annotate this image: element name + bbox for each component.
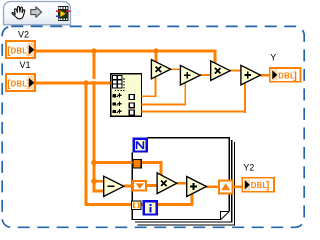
wire tunnel drop to X3 <box>160 161 163 176</box>
for loop stacked frame 3 <box>138 142 235 225</box>
wire X1 to plus1 <box>170 68 181 70</box>
wire index out 2 <box>141 104 186 106</box>
selection marquee (dashed blue) <box>2 26 304 227</box>
multiply X2 <box>211 61 230 80</box>
junction dot X1 feed <box>153 48 158 53</box>
junction dot V1 <box>83 80 88 85</box>
wire V2 drop to multiply X1 <box>155 51 158 63</box>
index array node body <box>111 74 142 117</box>
loop count terminal N <box>134 139 147 152</box>
wire plus1 to X2 <box>200 74 211 76</box>
wire V1 array horizontal <box>36 82 111 85</box>
for loop frame (main) <box>132 138 229 220</box>
wire crossing gap <box>92 79 96 81</box>
page curl at loop corner <box>220 211 229 220</box>
index array 2D grid icon <box>113 76 125 91</box>
svg-text:]: ] <box>266 181 269 192</box>
index array row glyphs <box>112 93 121 113</box>
wire index out 2 riser <box>184 82 186 105</box>
wire right shift register to Y2 <box>233 185 242 188</box>
svg-text:DBL: DBL <box>278 71 295 80</box>
svg-text:V2: V2 <box>18 30 29 40</box>
wire V1 vertical down <box>85 83 88 206</box>
control terminal V1 <box>6 74 35 91</box>
index array output squares <box>129 95 134 115</box>
wire plus2 to Y <box>260 74 269 76</box>
add P3 <box>187 177 207 197</box>
wire to loop tunnel <box>93 161 133 164</box>
wire plus3 to right shift register <box>206 185 218 188</box>
svg-text:Y: Y <box>270 53 276 63</box>
wire X2 to plus2 <box>230 70 242 72</box>
svg-text:DBL: DBL <box>251 181 268 190</box>
wire V1 elbow to autoindex tunnel <box>85 203 132 206</box>
wire autoindex riser to plus3 <box>191 194 194 205</box>
wire V2 drop to multiply X2 <box>214 50 217 64</box>
wire shift register to X3 <box>147 184 158 187</box>
subtract S1 <box>104 176 124 196</box>
input tunnel (array) <box>133 160 141 168</box>
add P1 <box>180 65 200 85</box>
junction dot V2 top <box>91 48 96 53</box>
multiply X1 <box>151 60 170 79</box>
toolbar tab <box>4 2 71 25</box>
svg-text:]: ] <box>294 71 297 82</box>
wire tunnel into loop <box>142 161 163 164</box>
svg-text:DBL: DBL <box>11 80 28 89</box>
svg-text:DBL: DBL <box>11 47 28 56</box>
iteration terminal i <box>144 201 157 214</box>
step arrow icon <box>31 7 42 18</box>
svg-text:Y2: Y2 <box>243 163 254 173</box>
pan tool hand icon <box>12 6 25 19</box>
wire index out 1 <box>141 95 156 97</box>
wire autoindex element <box>141 203 193 206</box>
wire index out 1 riser <box>155 77 157 97</box>
junction dot tunnel feed <box>91 160 97 166</box>
add P2 <box>241 65 261 85</box>
multiply X3 <box>157 173 177 194</box>
for loop stacked frame 2 <box>135 140 232 222</box>
control terminal V2 <box>6 41 35 58</box>
wire to subtract top input <box>93 180 104 183</box>
junction dot subtract feed <box>91 178 97 184</box>
wire index out 3 <box>141 111 246 113</box>
wire to subtract bottom input <box>93 189 104 192</box>
VI film-strip icon <box>56 6 71 21</box>
autoindex tunnel <box>131 201 141 209</box>
wire X3 to plus3 <box>176 182 187 185</box>
indicator Y2 <box>242 178 274 192</box>
wire V2 array horizontal <box>36 50 217 53</box>
wire subtract to shift register <box>123 184 133 187</box>
left shift register <box>133 181 146 191</box>
indicator Y <box>270 68 301 82</box>
svg-text:V1: V1 <box>20 60 31 70</box>
wire index out 3 riser <box>244 82 246 113</box>
right shift register <box>219 180 233 193</box>
wire V2 vertical down <box>93 51 96 192</box>
